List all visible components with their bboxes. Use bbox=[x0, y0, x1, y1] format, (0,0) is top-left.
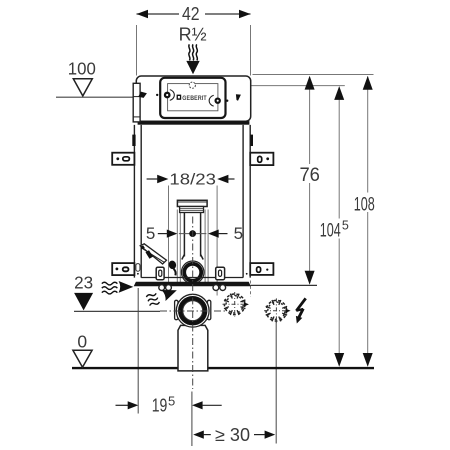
svg-text:5: 5 bbox=[168, 393, 175, 408]
svg-text:42: 42 bbox=[182, 4, 200, 24]
svg-text:100: 100 bbox=[68, 58, 96, 78]
svg-text:19: 19 bbox=[152, 395, 168, 415]
svg-text:76: 76 bbox=[299, 164, 320, 186]
svg-text:108: 108 bbox=[354, 194, 375, 216]
svg-text:18/23: 18/23 bbox=[169, 171, 216, 188]
svg-text:5: 5 bbox=[146, 224, 155, 243]
svg-text:R½: R½ bbox=[179, 24, 207, 44]
svg-text:≥ 30: ≥ 30 bbox=[215, 425, 250, 445]
svg-text:5: 5 bbox=[342, 219, 349, 233]
svg-text:GEBERIT: GEBERIT bbox=[182, 95, 207, 102]
svg-text:23: 23 bbox=[74, 272, 93, 292]
svg-text:5: 5 bbox=[234, 224, 243, 243]
svg-text:0: 0 bbox=[77, 331, 87, 351]
svg-text:104: 104 bbox=[320, 221, 341, 242]
